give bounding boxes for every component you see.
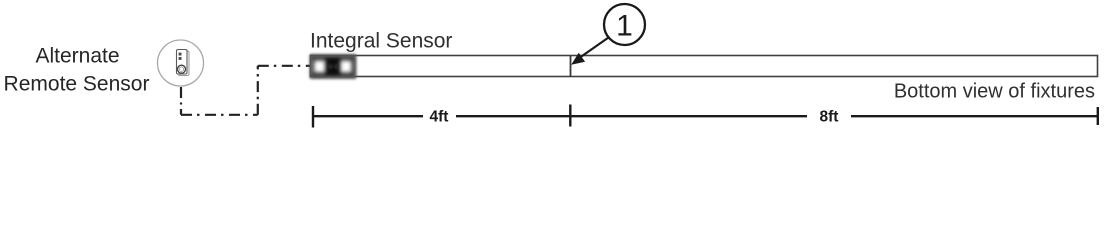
svg-text:Integral Sensor: Integral Sensor (310, 30, 452, 53)
svg-text:1: 1 (616, 10, 633, 43)
svg-text:8ft: 8ft (820, 109, 839, 126)
svg-text:Bottom view of fixtures: Bottom view of fixtures (894, 81, 1095, 103)
svg-text:Remote Sensor: Remote Sensor (4, 72, 150, 95)
svg-text:Alternate: Alternate (35, 45, 119, 68)
svg-text:4ft: 4ft (430, 109, 449, 126)
